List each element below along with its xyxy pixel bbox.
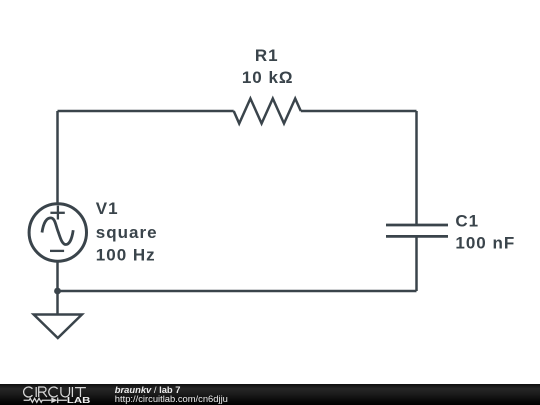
svg-text:R1: R1 [255,46,279,65]
footer bar [0,384,540,405]
capacitor C1 [386,225,448,236]
wire right vertical upper [415,111,418,225]
svg-text:10 kΩ: 10 kΩ [242,68,294,87]
wire bottom horizontal [58,290,417,293]
wire right vertical lower [415,236,418,291]
wire top-left horizontal [58,110,234,113]
svg-text:100 Hz: 100 Hz [96,245,156,264]
wire left vertical lower [56,260,59,291]
svg-text:C1: C1 [455,211,479,230]
logo letter I [35,387,37,397]
logo wire + resistor squiggle [24,398,67,402]
credit line 2 [115,394,228,403]
logo letter T [75,388,86,397]
voltage source V1 [29,204,86,261]
node junction dot [54,288,61,295]
logo letter R [39,387,47,397]
credit line 1 [115,385,181,394]
resistor R1 [234,99,301,124]
wire ground stem [56,291,59,315]
ground [34,315,82,339]
CircuitLab logo [18,384,98,405]
logo letter U [61,387,70,397]
svg-text:100 nF: 100 nF [455,233,515,252]
svg-text:V1: V1 [96,199,119,218]
logo letter C [49,387,58,397]
logo diode triangle [51,398,57,404]
wire top-right horizontal [301,110,417,113]
logo diode bar [57,398,59,404]
svg-text:LAB: LAB [67,396,91,405]
logo letter I [71,387,73,397]
logo letter C [24,387,33,397]
wire left vertical upper [56,111,59,205]
svg-text:square: square [96,223,158,242]
